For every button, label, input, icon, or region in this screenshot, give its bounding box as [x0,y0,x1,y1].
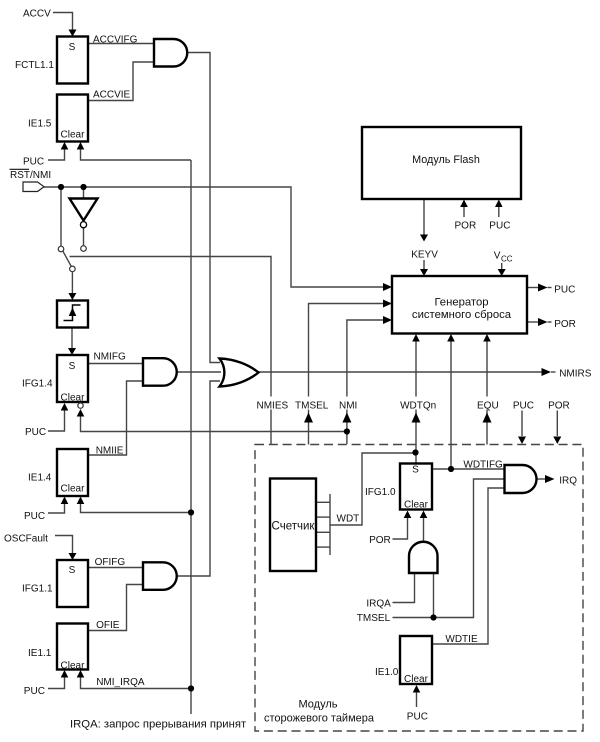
svg-text:Clear: Clear [404,499,429,510]
svg-text:KEYV: KEYV [411,250,438,261]
svg-text:TMSEL: TMSEL [357,613,391,624]
svg-text:Clear: Clear [404,674,429,685]
svg-text:PUC: PUC [24,511,45,522]
svg-text:NMIES: NMIES [257,401,289,412]
svg-text:S: S [412,465,419,476]
svg-text:PUC: PUC [489,221,510,232]
svg-text:OFIE: OFIE [96,620,120,631]
svg-text:IRQA: запрос прерывания принят: IRQA: запрос прерывания принят [70,719,246,731]
svg-text:OSCFault: OSCFault [4,534,48,545]
svg-text:IFG1.4: IFG1.4 [22,379,53,390]
svg-text:ACCVIE: ACCVIE [93,90,131,101]
svg-text:V: V [494,251,501,262]
svg-text:Clear: Clear [61,392,86,403]
svg-text:IE1.1: IE1.1 [28,648,52,659]
svg-text:POR: POR [548,401,570,412]
svg-text:WDTQn: WDTQn [400,401,436,412]
svg-text:Генератор: Генератор [434,297,488,309]
svg-text:системного сброса: системного сброса [412,309,512,321]
svg-text:S: S [69,565,76,576]
svg-text:IFG1.0: IFG1.0 [365,487,396,498]
svg-text:Clear: Clear [61,484,86,495]
svg-text:IE1.5: IE1.5 [28,119,52,130]
svg-text:POR: POR [455,221,477,232]
svg-text:OFIFG: OFIFG [95,557,126,568]
svg-text:RST/NMI: RST/NMI [10,170,51,181]
svg-text:Счетчик: Счетчик [272,521,316,533]
svg-text:FCTL1.1: FCTL1.1 [15,60,54,71]
svg-text:PUC: PUC [513,401,534,412]
svg-text:Clear: Clear [61,661,86,672]
svg-text:PUC: PUC [407,712,428,723]
svg-text:WDTIE: WDTIE [445,634,478,645]
svg-text:PUC: PUC [554,285,575,296]
svg-text:EQU: EQU [477,401,499,412]
svg-text:PUC: PUC [24,686,45,697]
svg-text:IFG1.1: IFG1.1 [22,584,53,595]
svg-text:Модуль: Модуль [299,699,338,711]
svg-text:Clear: Clear [61,130,86,141]
svg-text:CC: CC [501,255,513,264]
svg-text:NMIRS: NMIRS [559,369,592,380]
svg-text:IRQ: IRQ [559,476,577,487]
svg-text:WDTIFG: WDTIFG [463,460,503,471]
svg-text:PUC: PUC [23,157,44,168]
svg-text:NMIFG: NMIFG [94,352,126,363]
svg-text:ACCV: ACCV [23,9,51,20]
svg-text:NMI: NMI [339,401,357,412]
svg-text:PUC: PUC [25,427,46,438]
svg-text:S: S [69,361,76,372]
svg-text:S: S [69,42,76,53]
svg-text:NMIIE: NMIIE [96,446,124,457]
svg-text:NMI_IRQA: NMI_IRQA [96,677,145,688]
svg-text:ACCVIFG: ACCVIFG [93,35,138,46]
svg-text:IRQA: IRQA [366,599,391,610]
svg-text:POR: POR [369,535,391,546]
svg-text:Модуль Flash: Модуль Flash [412,154,480,166]
svg-text:IE1.0: IE1.0 [375,667,399,678]
svg-text:IE1.4: IE1.4 [28,473,52,484]
svg-text:сторожевого таймера: сторожевого таймера [264,713,375,725]
svg-text:TMSEL: TMSEL [295,401,329,412]
svg-text:WDT: WDT [337,514,360,525]
svg-text:POR: POR [554,319,576,330]
